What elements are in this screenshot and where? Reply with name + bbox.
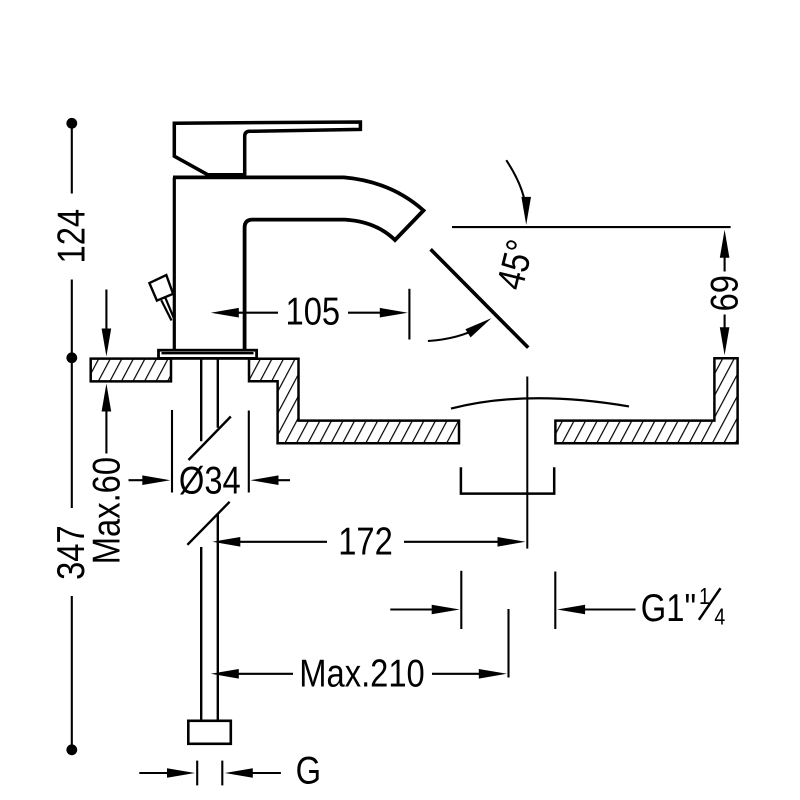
svg-text:1: 1 <box>699 584 710 610</box>
faucet body top and spout <box>173 177 424 351</box>
45 degree diagonal <box>431 249 529 347</box>
faucet body left edge <box>173 177 176 351</box>
45 degree reference line <box>452 226 731 228</box>
dimension 124/347 line <box>66 118 77 129</box>
supply pipe right line <box>217 359 219 428</box>
svg-text:172: 172 <box>338 520 393 563</box>
pop-up rod knob <box>149 275 173 301</box>
dimension Max.60 <box>105 290 107 331</box>
dimension 69 <box>720 230 730 258</box>
drain centerline <box>526 377 528 549</box>
pipe break slash upper <box>189 417 231 461</box>
supply pipe left line <box>200 359 202 442</box>
basin step middle piece (hatched) <box>249 359 459 443</box>
svg-text:4: 4 <box>714 604 725 630</box>
base flange <box>159 350 257 358</box>
svg-text:69: 69 <box>703 275 746 311</box>
svg-text:Ø34: Ø34 <box>179 459 241 502</box>
svg-text:G: G <box>296 749 321 792</box>
pipe break slash lower <box>187 502 229 545</box>
dimension 172 <box>212 537 240 547</box>
dimension Ø34 <box>171 410 173 493</box>
svg-text:105: 105 <box>286 290 341 333</box>
basin break arc <box>451 398 629 408</box>
svg-text:Max.60: Max.60 <box>85 457 128 564</box>
dimension Max.210 <box>211 669 239 679</box>
dimension 105 <box>211 308 239 318</box>
svg-text:124: 124 <box>50 209 93 264</box>
dimension G <box>139 772 167 774</box>
pipe end fitting <box>188 721 231 744</box>
dimension G1 1/4 <box>460 571 462 629</box>
svg-text:Max.210: Max.210 <box>299 652 424 695</box>
basin right piece with wall (hatched) <box>555 358 737 443</box>
45 top arc arrow <box>506 160 526 214</box>
45 bottom arc arrow <box>428 327 480 341</box>
svg-text:G1": G1" <box>641 586 696 629</box>
lever handle <box>174 122 360 175</box>
drain U outline <box>461 467 554 493</box>
pop-up rod <box>165 297 175 320</box>
countertop left piece (hatched) <box>91 359 171 382</box>
